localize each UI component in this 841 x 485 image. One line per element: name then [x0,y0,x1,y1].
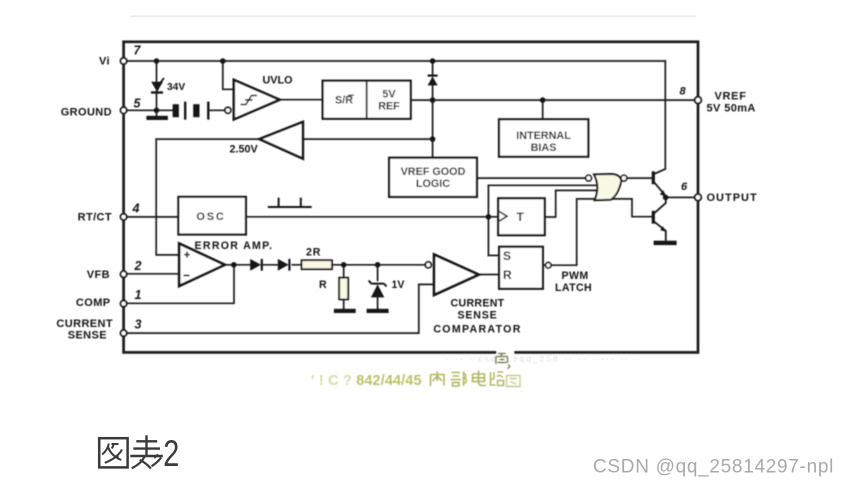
wire T output to gate [545,190,599,217]
svg-text:UVLO: UVLO [263,75,293,87]
block OSC [178,197,246,235]
svg-text:2: 2 [163,433,179,474]
junction VREF at internal bias [540,97,546,103]
caption CJK: 内 [431,372,445,387]
caption trailing glyph 图 (faded) [507,376,521,387]
wire T clock stub [488,216,498,218]
overline on R of S/R [348,94,354,96]
caption CJK: 电 [473,371,487,386]
clock pulse glyph [268,198,312,207]
wire VFB to error amp - input [127,273,179,275]
block INTERNAL BIAS [499,119,588,156]
wire pin3 current sense to comparator [127,284,434,333]
svg-text:CURRENT: CURRENT [56,318,113,330]
svg-text:S: S [503,249,511,263]
ground symbol below pin 5 [146,116,168,120]
svg-text:34V: 34V [167,82,185,93]
pin 5 circle [121,107,127,113]
battery cell 2 (UVLO threshold) [193,102,209,120]
svg-text:5V 50mA: 5V 50mA [707,103,756,115]
svg-text:1V: 1V [392,279,405,291]
junction on Vi at diode [430,58,436,64]
wire OSC clock line [246,216,489,218]
svg-text:PWM: PWM [562,270,589,282]
ground symbol below Q2 [654,241,677,245]
svg-text:3: 3 [135,318,142,332]
IC outer boundary box [124,42,698,353]
op-amp current sense comparator [434,255,479,295]
svg-text:VFB: VFB [87,269,110,281]
faint top rule [130,15,696,17]
svg-text:VREF: VREF [715,91,747,103]
wire SR box to output bubble [543,264,546,266]
svg-text:R: R [503,268,512,282]
junction on Vi at UVLO riser [220,58,226,64]
wire battery chain to UVLO bubble [210,109,225,111]
svg-text:2: 2 [134,259,142,273]
wire 2.5V ref line [303,138,433,140]
block VREF GOOD LOGIC [389,158,477,197]
caption CJK: 路 [490,372,504,386]
svg-text:REF: REF [378,101,400,113]
svg-text:T: T [517,210,525,224]
wire output node to pin6 [668,196,695,198]
NOR gate U3 [594,174,621,200]
pin 6 circle [695,194,702,201]
pin 1 circle [121,301,127,307]
ground symbol below R [334,309,356,313]
junction clock riser [486,214,492,220]
block S/R + 5V REF [323,81,411,119]
wire Vi riser to UVLO input [223,61,233,89]
caption CJK: 部 [451,372,467,387]
diode D1 [250,259,262,271]
junction error amp output [231,262,237,268]
transistor Q1 (upper NPN) [653,169,666,197]
battery cell 1 (UVLO threshold) [173,102,187,120]
wire COMP to error amp output [127,265,235,304]
svg-text:CURRENT: CURRENT [451,298,505,310]
watermark glyph above caption (dark olive) [496,349,514,368]
svg-text:6: 6 [681,181,688,193]
pin 2 circle [121,271,127,277]
UVLO comparator input bubble [225,107,231,113]
junction at resistor R [341,262,347,268]
wire SR latch output to Q2 base [551,199,652,265]
zener diode 34V [151,78,164,93]
pin 4 circle [121,214,127,220]
svg-text:8: 8 [680,86,687,98]
block T flip-flop [498,198,545,235]
svg-text:COMPARATOR: COMPARATOR [433,324,521,336]
wire UVLO output to S/R box [280,99,323,101]
2.50V reference amp triangle [259,122,303,159]
resistor 2R [302,260,332,269]
wire resistor R branch [343,265,345,309]
svg-text:1: 1 [135,288,142,302]
svg-text:S/R: S/R [335,95,353,107]
pin 7 circle [121,58,127,64]
svg-text:OUTPUT: OUTPUT [707,192,758,204]
figure label 图表2: glyph 表 [130,435,163,468]
junction 2.5V line [430,136,436,142]
wire collector riser (Vi to Q1 collector) [664,61,666,169]
error amp - sign [184,274,190,276]
wire error amp output chain [225,264,426,266]
wire zener 1V branch [377,265,379,309]
svg-text:2R: 2R [306,247,321,259]
diode (Vi to VREF) [428,76,438,86]
svg-text:SENSE: SENSE [68,330,107,342]
svg-text:7: 7 [134,44,142,58]
wire Vi rail [127,60,666,62]
svg-text:5: 5 [134,97,142,111]
svg-text:VREF GOOD: VREF GOOD [401,166,466,178]
svg-text:LOGIC: LOGIC [416,178,450,190]
svg-text:LATCH: LATCH [555,282,592,294]
wire VREF line box to pin8 [411,99,695,101]
svg-text:RT/CT: RT/CT [78,212,112,224]
wire zener 34V branch [156,61,158,116]
svg-text:CSDN @qq_25814297-npl: CSDN @qq_25814297-npl [593,457,834,478]
error amp + sign [184,252,190,258]
svg-text:ERROR AMP.: ERROR AMP. [195,240,274,252]
wire GROUND line pin5 to zener node [127,109,173,111]
wire internal bias drop [542,100,544,119]
svg-text:5V: 5V [382,89,396,101]
svg-text:SENSE: SENSE [458,309,498,321]
wire S input stub [488,254,499,256]
op-amp UVLO comparator [234,80,280,120]
junction VREF at diode [430,97,436,103]
svg-text:GROUND: GROUND [61,107,112,119]
svg-text:2.50V: 2.50V [230,144,259,156]
svg-text:BIAS: BIAS [531,142,557,154]
T clock input triangle glyph [499,212,507,222]
svg-text:R: R [319,279,327,291]
resistor R [339,278,348,300]
NOR gate input bubble [586,175,592,181]
wire RT/CT to OSC [127,216,179,218]
svg-text:- -- - csdn @qq_258 -- -- - --: - -- - csdn @qq_258 -- -- - --- -- - [446,354,639,364]
NOR gate output bubble [621,175,627,181]
wire diode branch at Vi [432,61,434,100]
junction on Vi at zener [154,58,160,64]
op-amp error amplifier [179,244,225,287]
wire VREF down to vref-good-logic [432,100,434,158]
wire clock riser [488,185,599,255]
svg-text:4: 4 [132,202,140,216]
wire vref-good to gate input bubble [477,177,586,179]
zener diode 1V [369,281,387,298]
junction ground line at zener [154,108,160,114]
svg-text:INTERNAL: INTERNAL [516,130,571,142]
wire comparator output to R input [478,274,499,276]
block PWM latch S R [499,247,543,289]
svg-text:Vi: Vi [99,56,110,68]
wire gate output to Q1 base [627,177,652,179]
SR latch output bubble [546,263,551,268]
transistor Q2 (lower NPN) [653,197,666,240]
svg-text:'!C?842/44/45: '!C?842/44/45 [311,373,422,389]
svg-text:COMP: COMP [76,297,111,309]
wire 2.5V to error amp + input [156,139,259,255]
diode D2 [278,259,290,271]
current sense comparator input bubble [425,262,431,268]
figure label 图表2: glyph 图 [99,438,127,467]
ground symbol below zener 1V [367,309,389,313]
junction at zener 1V [375,262,381,268]
pin 8 circle [695,97,702,104]
pin 3 circle [121,330,127,336]
svg-text:OSC: OSC [196,211,225,223]
junction output node [663,195,669,201]
hysteresis glyph inside UVLO [241,96,258,105]
